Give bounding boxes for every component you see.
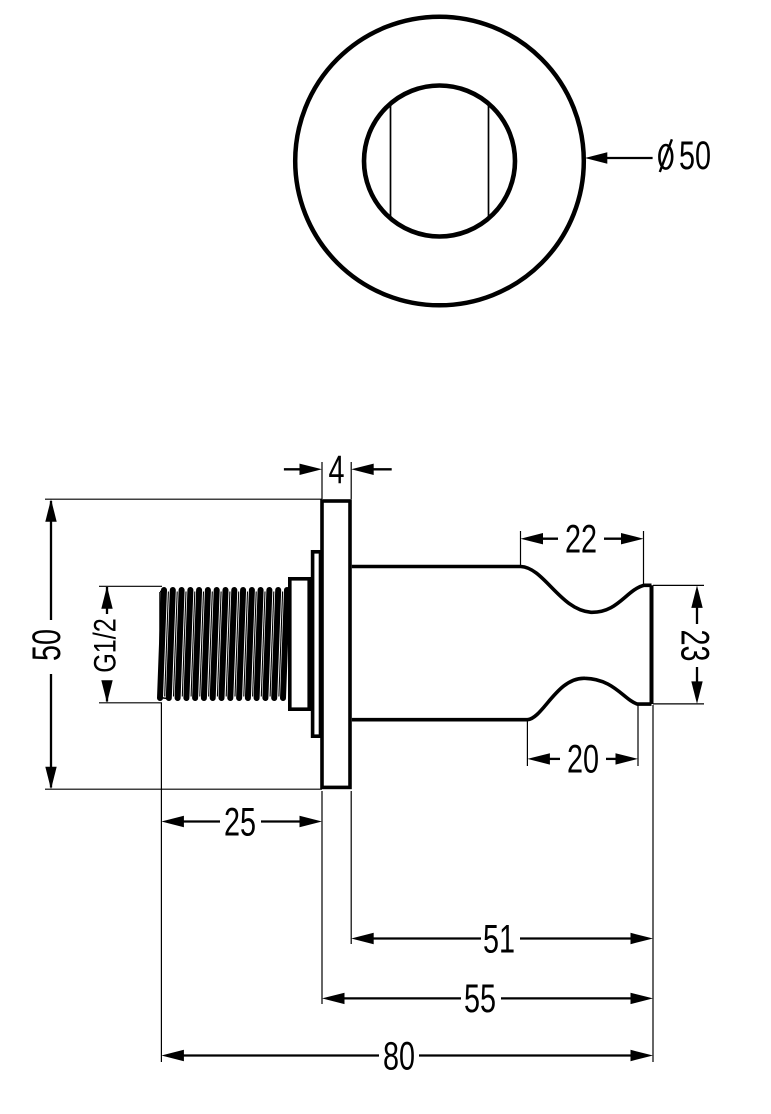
dim 55 line with arrows	[340, 997, 461, 999]
leader arrow for ø50	[605, 157, 653, 159]
svg-text:80: 80	[383, 1034, 415, 1079]
svg-text:G1/2: G1/2	[88, 618, 123, 673]
svg-text:50: 50	[24, 629, 69, 661]
dim G1/2 line with arrows	[106, 587, 108, 614]
dim 22 extension lines	[520, 531, 522, 565]
label ø50 diameter symbol	[659, 145, 672, 169]
svg-text:50: 50	[679, 133, 711, 178]
thread flank separator lines	[165, 592, 283, 697]
holder end face	[650, 585, 654, 704]
dim 51 extension lines	[350, 791, 352, 944]
dim 22 line with arrows	[540, 538, 558, 540]
flange ring behind plate	[313, 552, 321, 736]
dim 51 line with arrows	[370, 937, 481, 939]
dim 50 extension lines	[45, 498, 322, 500]
dim G1/2 extension lines	[99, 585, 162, 587]
thread G1/2 chamfer edge	[159, 592, 161, 697]
thread G1/2 teeth	[160, 590, 287, 698]
tube silhouette line left	[390, 104, 392, 218]
dim 20 extension lines	[526, 721, 528, 766]
svg-text:55: 55	[464, 977, 496, 1022]
holder body outline top	[352, 567, 652, 613]
collar (thread runout)	[290, 579, 309, 709]
dim 50 line with arrows	[50, 501, 52, 620]
dim 20 line with arrows	[545, 758, 560, 760]
holder body outline bottom	[352, 678, 652, 719]
svg-text:25: 25	[224, 800, 256, 845]
dim 4 right arrow	[373, 468, 392, 470]
inner circle (holder boss)	[364, 86, 515, 237]
dim 80 line with arrows	[180, 1054, 379, 1056]
svg-text:22: 22	[565, 517, 597, 562]
svg-text:23: 23	[673, 629, 718, 661]
wall plate (side)	[322, 501, 350, 787]
dim 25 extension lines	[160, 703, 162, 1062]
dim 25 line with arrows	[180, 820, 220, 822]
svg-text:4: 4	[328, 447, 344, 492]
dim 23 extension lines	[653, 584, 704, 586]
svg-text:51: 51	[483, 917, 515, 962]
tube silhouette line right	[488, 104, 490, 218]
dim 4 extension lines	[321, 462, 323, 499]
dim 4 left arrow	[284, 468, 301, 470]
outer circle (wall plate ø50)	[295, 17, 584, 306]
dim 23 line with arrows	[696, 605, 698, 624]
svg-text:20: 20	[567, 737, 599, 782]
